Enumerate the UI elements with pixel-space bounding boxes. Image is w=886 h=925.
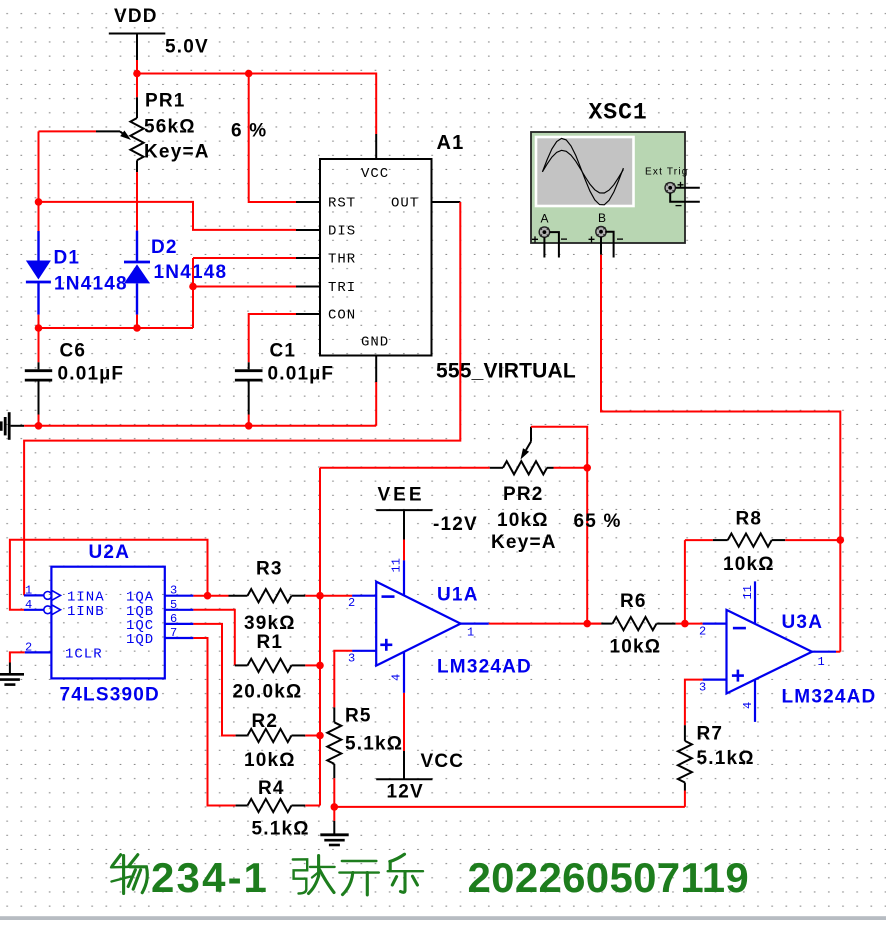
resistor R2 10k (236, 735, 248, 737)
scope channel B terminal (596, 227, 606, 237)
svg-text:CON: CON (328, 308, 356, 324)
scope trace B (542, 150, 623, 193)
wire QA to R3 (193, 595, 228, 597)
wire QD to R4 (193, 638, 235, 806)
potentiometer PR2 (320, 467, 490, 469)
wire QC to R2 (193, 624, 235, 736)
node D1 bottom (35, 324, 43, 332)
wire ground rail to R7 (334, 806, 685, 808)
wire (136, 60, 138, 74)
U3A pin3 stub (703, 678, 727, 680)
capacitor C1 0.01uF (248, 362, 250, 369)
svg-text:R8: R8 (736, 509, 763, 530)
node DIS junction (35, 198, 43, 206)
ground (center) (333, 807, 335, 821)
svg-text:5.0V: 5.0V (165, 37, 209, 58)
wire R3 to U1A pin2 (305, 595, 352, 597)
svg-text:VEE: VEE (378, 484, 425, 505)
resistor R5 5.1k (333, 707, 335, 722)
svg-text:TRI: TRI (328, 280, 356, 296)
svg-text:+: + (532, 233, 540, 247)
svg-text:1: 1 (467, 626, 475, 640)
svg-text:1: 1 (818, 655, 826, 669)
resistor R4 5.1k (236, 805, 248, 807)
diode D2 1N4148 (136, 172, 138, 231)
U2A output stubs (165, 595, 194, 597)
wire summing node riser (319, 468, 321, 806)
svg-text:12V: 12V (387, 781, 424, 802)
wire (137, 74, 376, 135)
scope trace A (542, 138, 623, 204)
resistor R1 20.0k (235, 664, 248, 666)
svg-text:1CLR: 1CLR (65, 647, 103, 663)
ground (left) (11, 425, 25, 427)
resistor R3 39k (229, 595, 248, 597)
svg-text:65 %: 65 % (574, 511, 622, 532)
scope Ext Trig terminal (665, 183, 675, 193)
svg-text:10kΩ: 10kΩ (497, 510, 549, 531)
node C6 ground (35, 422, 43, 430)
svg-text:A1: A1 (437, 132, 465, 154)
svg-text:7: 7 (170, 626, 178, 640)
svg-text:LM324AD: LM324AD (782, 686, 877, 707)
wire wiper to right terminal (531, 427, 587, 468)
wire DIS (39, 202, 297, 230)
svg-text:U1A: U1A (437, 584, 479, 605)
wire RST (249, 74, 296, 203)
svg-text:10kΩ: 10kΩ (723, 554, 775, 575)
svg-text:VCC: VCC (421, 751, 465, 772)
svg-text:4: 4 (25, 598, 33, 612)
svg-text:3: 3 (170, 584, 178, 598)
U1A output stub (461, 622, 489, 624)
node U1A out / PR2 (583, 620, 591, 628)
svg-text:R7: R7 (697, 724, 724, 745)
svg-text:5: 5 (170, 598, 178, 612)
wire OUT (432, 201, 461, 203)
wire R1 right (305, 664, 320, 666)
svg-text:D1: D1 (54, 247, 81, 268)
power VCC (376, 778, 432, 780)
diode D1 1N4148 (38, 202, 40, 231)
U1A pin2 stub (352, 595, 376, 597)
node QA/feedback (204, 592, 212, 600)
svg-text:2: 2 (25, 641, 33, 655)
wire R8 branch (684, 540, 686, 624)
wire ext trig stubs (676, 187, 700, 189)
resistor R6 10k (587, 623, 601, 625)
svg-text:A: A (541, 212, 550, 226)
svg-text:XSC1: XSC1 (589, 100, 648, 126)
wire THR (193, 257, 296, 259)
svg-text:6 %: 6 % (231, 121, 267, 142)
node C1 ground (245, 422, 253, 430)
svg-text:THR: THR (328, 252, 356, 268)
svg-text:1N4148: 1N4148 (154, 262, 228, 283)
wire 555 GND (375, 382, 377, 426)
svg-text:5.1kΩ: 5.1kΩ (252, 819, 310, 840)
U2A pin2 stub (25, 651, 52, 653)
svg-text:Key=A: Key=A (491, 532, 557, 553)
svg-text:U2A: U2A (89, 542, 131, 563)
caption green text (111, 855, 147, 894)
svg-text:202260507119: 202260507119 (468, 854, 750, 901)
svg-text:Key=A: Key=A (144, 141, 210, 162)
wire VEE to pin11 (403, 540, 405, 561)
svg-text:R2: R2 (252, 711, 279, 732)
svg-text:RST: RST (328, 196, 356, 212)
svg-text:2: 2 (699, 625, 707, 639)
svg-text:LM324AD: LM324AD (437, 657, 532, 678)
op-amp U1A pins 11/4 (403, 560, 405, 693)
wire U1A pin3 to R5 (334, 651, 352, 708)
wire 555 VCC pin (375, 134, 377, 159)
wire U3A out (836, 651, 840, 653)
svg-text:U3A: U3A (782, 612, 824, 633)
wire R7 to ground rail (684, 791, 686, 807)
svg-text:555_VIRTUAL: 555_VIRTUAL (436, 360, 576, 383)
node ground (331, 803, 339, 811)
wire diode bottom rail (39, 327, 194, 329)
op-amp U3A (727, 610, 813, 694)
svg-text:56kΩ: 56kΩ (144, 116, 196, 137)
svg-text:−: − (561, 232, 569, 246)
svg-text:R1: R1 (257, 632, 284, 653)
resistor R7 5.1k (684, 725, 686, 741)
U2A pin4 stub (24, 609, 44, 611)
node RST branch (245, 70, 253, 78)
node R6 right (681, 620, 689, 628)
svg-text:PR1: PR1 (145, 91, 186, 112)
svg-text:Ext Trig: Ext Trig (645, 167, 689, 178)
capacitor C6 0.01uF (38, 328, 40, 362)
op-amp U1A (376, 582, 460, 666)
node R3 right (316, 592, 324, 600)
resistor R8 10k (685, 539, 713, 541)
svg-text:1: 1 (244, 854, 267, 901)
svg-text:C1: C1 (270, 340, 297, 361)
svg-text:+: + (677, 178, 685, 192)
svg-text:5.1kΩ: 5.1kΩ (345, 734, 403, 755)
svg-text:1INB: 1INB (67, 604, 105, 620)
wire R2 right (305, 735, 320, 737)
ground (U2A) (9, 663, 11, 675)
potentiometer PR1 (136, 74, 138, 98)
node VDD junction (133, 70, 141, 78)
svg-text:20.0kΩ: 20.0kΩ (233, 682, 303, 703)
wire QB to R1 (193, 610, 234, 666)
svg-text:VDD: VDD (114, 6, 158, 27)
wire PR2 to U1A out (586, 468, 588, 624)
svg-text:VCC: VCC (361, 166, 389, 182)
svg-text:3: 3 (699, 681, 707, 695)
wire R4 right to summing riser (305, 805, 320, 807)
svg-text:PR2: PR2 (503, 484, 544, 505)
node R8 right (837, 536, 845, 544)
node PR2 right (583, 464, 591, 472)
svg-text:6: 6 (170, 612, 178, 626)
node R1 right (316, 662, 324, 670)
wire U1A out (489, 623, 602, 625)
U1A pin3 stub (352, 650, 376, 652)
node R2 right (316, 732, 324, 740)
svg-text:D2: D2 (151, 237, 178, 258)
node TRI junction (189, 283, 197, 291)
svg-text:2: 2 (348, 596, 356, 610)
wire A stubs (543, 237, 545, 257)
wire R5 to ground (333, 778, 335, 807)
wire pin4 to VCC (403, 693, 405, 751)
U3A pin2 stub (703, 622, 727, 624)
wire scope B to output (601, 255, 840, 540)
PR1 wiper arrow (96, 130, 120, 132)
wire THR/TRI riser (192, 258, 194, 328)
wire TRI (193, 286, 296, 288)
svg-text:39kΩ: 39kΩ (244, 613, 296, 634)
scope channel A terminal (539, 227, 549, 237)
svg-text:11: 11 (390, 558, 404, 572)
IC U2A 74LS390D (51, 567, 164, 679)
svg-text:4: 4 (390, 674, 404, 681)
svg-text:10kΩ: 10kΩ (610, 637, 662, 658)
svg-text:0.01µF: 0.01µF (58, 364, 125, 385)
U2A pin1 stub (24, 594, 44, 596)
svg-text:3: 3 (348, 652, 356, 666)
svg-text:GND: GND (361, 335, 389, 351)
PR2 wiper (530, 427, 532, 442)
wire CON (249, 314, 296, 362)
svg-text:−: − (675, 199, 683, 213)
op-amp U3A pins 11/4 (754, 581, 756, 722)
wire wiper to DIS node (39, 130, 97, 132)
svg-text:OUT: OUT (391, 196, 419, 212)
svg-text:5.1kΩ: 5.1kΩ (697, 748, 755, 769)
svg-text:10kΩ: 10kΩ (244, 750, 296, 771)
svg-text:DIS: DIS (328, 224, 356, 240)
wire pin2 to ground (10, 652, 25, 662)
wire ground rail (24, 425, 376, 427)
svg-text:11: 11 (741, 585, 755, 599)
svg-text:1N4148: 1N4148 (54, 274, 128, 295)
svg-text:-12V: -12V (433, 514, 478, 535)
bottom scrollbar strip (0, 916, 886, 920)
svg-text:R3: R3 (256, 558, 283, 579)
svg-text:0.01µF: 0.01µF (268, 364, 335, 385)
svg-text:4: 4 (741, 702, 755, 709)
svg-text:1: 1 (25, 584, 33, 598)
svg-text:74LS390D: 74LS390D (60, 684, 160, 705)
svg-text:+: + (588, 233, 596, 247)
node D2 bottom (133, 324, 141, 332)
svg-text:R5: R5 (345, 706, 372, 727)
wire pin4 feedback loop (10, 540, 208, 610)
svg-text:1QD: 1QD (126, 632, 154, 648)
U3A output stub (812, 651, 836, 653)
svg-text:−: − (617, 232, 625, 246)
555 timer A1 (320, 159, 432, 356)
svg-text:B: B (598, 211, 607, 225)
svg-text:R6: R6 (620, 591, 647, 612)
wire R8 to U3A out (839, 540, 841, 652)
svg-text:R4: R4 (258, 778, 285, 799)
wire U3A pin3 to R7 (685, 680, 703, 726)
wire B stubs (600, 237, 602, 255)
svg-text:234-: 234- (151, 854, 244, 901)
svg-text:C6: C6 (60, 340, 87, 361)
